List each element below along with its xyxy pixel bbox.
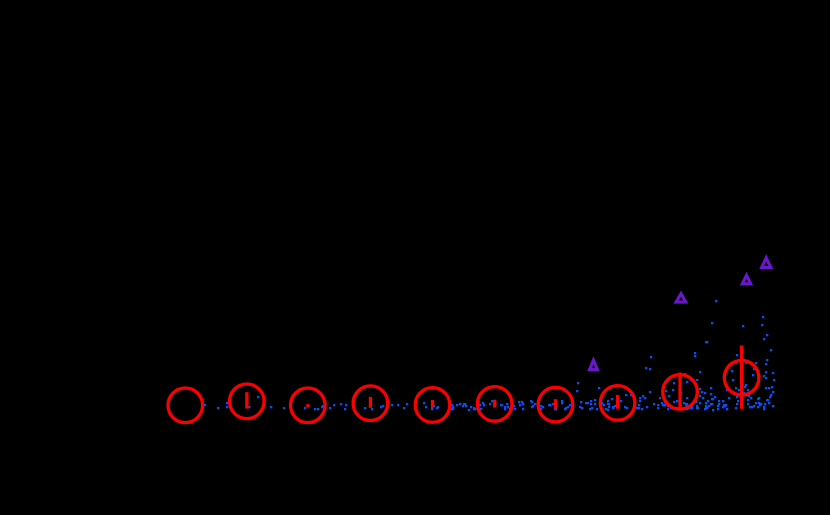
mean point circle 5 <box>415 388 450 423</box>
error bar 8 <box>616 395 619 409</box>
error bar 4 <box>369 397 372 408</box>
outlier triangle 2 <box>676 294 686 303</box>
error bar 3 <box>306 404 309 407</box>
mean point circle 1 <box>168 388 203 423</box>
error bar 2 <box>245 392 248 408</box>
error bar 10 <box>740 346 743 409</box>
outlier triangle 3 <box>742 275 750 284</box>
mean point circle 10 <box>724 360 759 395</box>
mean point circle 8 <box>600 386 635 421</box>
mean point circle 6 <box>477 387 512 422</box>
blue scatter dots (raw data points) <box>204 300 775 411</box>
mean point circle 7 <box>538 387 573 422</box>
error bar 5 <box>431 400 434 407</box>
mean point circle 9 <box>663 375 698 410</box>
outlier triangle 1 <box>590 360 598 370</box>
error bar 7 <box>554 399 557 408</box>
error bar 9 <box>678 373 681 411</box>
mean point circle 2 <box>230 384 265 419</box>
outlier triangle 4 <box>762 258 771 268</box>
mean point circle 4 <box>353 386 388 421</box>
mean point circle 3 <box>291 388 326 423</box>
error bar 6 <box>493 400 496 408</box>
